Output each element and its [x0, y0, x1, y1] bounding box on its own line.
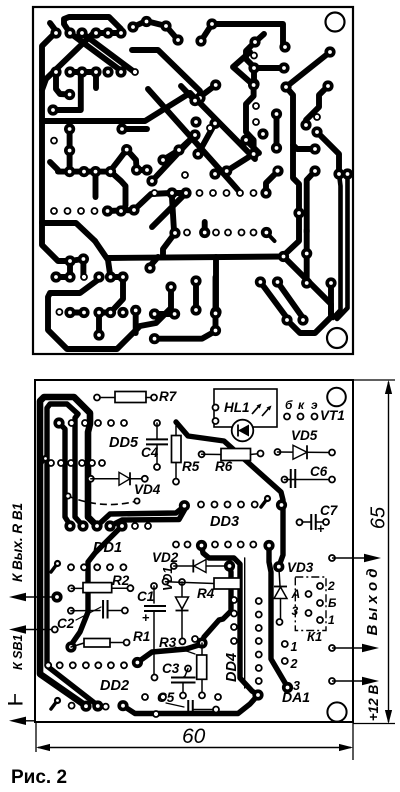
stub pad DD3 — [261, 495, 271, 507]
svg-text:C3: C3 — [162, 661, 180, 676]
pad — [271, 142, 282, 153]
pad near R3 — [192, 636, 198, 642]
pad — [300, 119, 311, 130]
pad VD2 cathode — [224, 560, 235, 571]
pad — [64, 89, 75, 100]
pad VD5 anode — [275, 449, 281, 455]
wire — [233, 52, 250, 82]
arrow +12V — [332, 677, 379, 685]
wire — [190, 93, 255, 159]
wire — [286, 87, 299, 212]
wire — [255, 34, 264, 42]
resistor R3 — [197, 655, 207, 679]
pad — [301, 277, 312, 288]
wire long diagonal to VD3 — [176, 422, 283, 566]
pad R4 left — [163, 579, 169, 585]
hole — [92, 208, 98, 214]
wire — [132, 50, 200, 98]
capacitor C6 — [291, 469, 296, 488]
pad — [248, 148, 259, 159]
pad — [64, 255, 75, 266]
pad R3 top — [196, 637, 207, 648]
pad DD2 row2 — [69, 703, 75, 709]
hole — [213, 230, 219, 236]
wire — [111, 278, 124, 313]
pad DD1 row2 — [120, 564, 126, 570]
wire — [155, 311, 175, 317]
wire — [254, 65, 284, 71]
pad DD2 row1 — [45, 662, 51, 668]
pad DD3 row2 — [212, 542, 218, 548]
pad — [64, 123, 75, 134]
pad — [190, 275, 201, 286]
wire — [67, 129, 73, 172]
pad — [257, 128, 268, 139]
pad — [105, 307, 116, 318]
pad — [261, 227, 272, 238]
pad — [169, 227, 180, 238]
capacitor C2 — [103, 600, 108, 619]
pad — [90, 27, 101, 38]
pad VD1 top — [179, 579, 185, 585]
pad R2 right — [127, 585, 133, 591]
wire C5 left lead — [159, 713, 188, 715]
pad — [146, 175, 157, 186]
wire VD3 top lead — [279, 569, 280, 586]
hole — [251, 230, 257, 236]
pad — [50, 27, 61, 38]
wire VD2 leads — [174, 565, 230, 567]
pad — [278, 251, 289, 262]
pad DD1 row2 — [94, 564, 100, 570]
pad DD3 row1 — [238, 502, 244, 508]
capacitor C4 — [146, 439, 168, 444]
wire R5 bottom lead — [175, 463, 177, 482]
wire C2 right lead — [108, 610, 125, 612]
extension line bottom right — [353, 723, 395, 725]
arrow output top — [332, 554, 381, 562]
wire to DA1 pin3 — [269, 546, 288, 687]
pad C3 top — [185, 666, 191, 672]
svg-text:К SB1: К SB1 — [11, 634, 25, 670]
wire R4 left lead — [166, 582, 215, 584]
pad DD3 row2 — [173, 542, 179, 548]
pad VD3 top — [273, 561, 284, 572]
hole — [197, 190, 203, 196]
stub pad — [51, 560, 61, 572]
wire — [50, 162, 58, 170]
pad — [130, 305, 141, 316]
mounting hole bottom-right — [327, 328, 347, 348]
pad — [322, 80, 333, 91]
wire — [307, 171, 315, 232]
pad DA1 col — [256, 665, 262, 671]
resistor R2 — [83, 583, 112, 593]
pad — [64, 166, 75, 177]
pad — [194, 92, 205, 103]
hole — [56, 309, 62, 315]
svg-text:60: 60 — [182, 725, 206, 748]
pad DD1 — [77, 520, 88, 531]
pad — [173, 144, 184, 155]
wire P2 — [71, 526, 122, 645]
capacitor C5 — [188, 700, 193, 716]
pad DD4 col — [231, 597, 237, 603]
wire — [284, 257, 332, 315]
pad — [78, 253, 89, 264]
pad — [210, 79, 221, 90]
pad — [115, 27, 126, 38]
pad DA1 — [252, 689, 263, 700]
pad DA1 pin3 — [282, 682, 293, 693]
pad — [157, 154, 168, 165]
wire C6 leads — [285, 479, 333, 481]
wire R3 top lead — [201, 643, 203, 655]
dimension 65 bottom arrowhead — [385, 710, 392, 724]
svg-text:C4: C4 — [141, 445, 159, 460]
pad DD5 row1 — [69, 420, 75, 426]
svg-text:Б: Б — [328, 596, 337, 610]
pad — [293, 207, 304, 218]
pad — [50, 271, 61, 282]
wire — [148, 89, 238, 190]
wire — [95, 241, 110, 274]
wire — [48, 279, 171, 349]
hole — [132, 69, 138, 75]
wire — [111, 172, 126, 210]
pad R1 left — [65, 641, 76, 652]
hole — [210, 190, 216, 196]
svg-text:к: к — [298, 398, 305, 412]
pad — [271, 108, 282, 119]
svg-text:+: + — [142, 610, 150, 625]
wire — [163, 137, 193, 160]
wire P1b — [110, 510, 184, 526]
pad VD1 bottom — [179, 638, 185, 644]
pad DD5 row2 — [58, 460, 64, 466]
diode VD3 — [274, 587, 287, 599]
pad — [272, 276, 283, 287]
capacitor C1 — [144, 606, 166, 611]
pad DD2 row1 — [108, 662, 114, 668]
pad DD2 row1 — [121, 662, 127, 668]
wire VD3 lead — [280, 599, 282, 623]
hole — [253, 119, 259, 125]
pad — [180, 187, 191, 198]
wire C4 bottom lead — [156, 445, 158, 468]
resistor R7 — [115, 392, 146, 403]
pad C7 right — [323, 519, 329, 525]
svg-text:э: э — [311, 398, 318, 412]
pad C5 right — [213, 707, 219, 713]
pad — [127, 21, 138, 32]
wire — [201, 24, 212, 41]
wire — [70, 259, 83, 261]
pad — [116, 123, 127, 134]
pad DA1 col — [256, 625, 262, 631]
hole — [152, 190, 158, 196]
svg-text:К1: К1 — [307, 629, 322, 644]
pad — [115, 205, 126, 216]
pad DD4 col — [231, 638, 237, 644]
wire — [333, 174, 341, 318]
diode VD2 — [193, 560, 206, 573]
dimension 65 line — [388, 382, 390, 722]
svg-text:R7: R7 — [159, 389, 178, 404]
pad — [78, 307, 89, 318]
pad DD5 row1 — [108, 420, 114, 426]
ground symbol — [8, 694, 23, 704]
pad — [117, 271, 128, 282]
wire — [266, 171, 278, 193]
pad DD3 row1 — [198, 502, 204, 508]
LED HL1 arrows — [252, 404, 272, 417]
wire R6 left lead — [202, 453, 221, 455]
wire P1 — [97, 507, 184, 527]
wire — [202, 222, 208, 233]
svg-text:R5: R5 — [182, 459, 200, 474]
wire — [111, 150, 127, 170]
wire long horizontal — [108, 257, 284, 259]
pad DD2 row1 — [83, 662, 89, 668]
wire VD4 leads — [91, 478, 145, 480]
wire — [152, 135, 195, 181]
pad DD2 row1 — [57, 662, 63, 668]
pad — [76, 66, 87, 77]
wire — [337, 174, 348, 319]
hole — [251, 53, 257, 59]
wire DD2 pad to R3 — [137, 644, 202, 663]
wire — [278, 282, 304, 318]
pad — [209, 168, 220, 179]
pad DD3 row2 — [250, 542, 256, 548]
pad VD4 anode — [88, 476, 94, 482]
wire C5 pointer — [166, 703, 184, 707]
wire — [266, 233, 274, 242]
pad — [249, 36, 260, 47]
pad DD3 pin8 — [196, 540, 207, 551]
wire R2 right lead — [112, 587, 131, 589]
pad — [64, 271, 75, 282]
wire — [213, 257, 219, 311]
pad DD5 pin1 — [53, 417, 64, 428]
pad DD1 — [104, 520, 115, 531]
svg-text:65: 65 — [368, 506, 390, 529]
pad DD2 — [132, 657, 143, 668]
wire — [82, 33, 133, 71]
pad — [192, 148, 203, 159]
svg-text:VT1: VT1 — [320, 408, 345, 423]
pad — [189, 129, 200, 140]
pad — [297, 314, 308, 325]
pad C2 right — [122, 608, 128, 614]
wire — [70, 69, 96, 75]
wire — [96, 30, 121, 36]
pad DD3 row1 — [225, 502, 231, 508]
wire R7 right lead — [146, 397, 154, 399]
pad DD1 row1 — [132, 523, 138, 529]
pad C7 left — [297, 519, 303, 525]
wire — [93, 172, 99, 197]
pad ground bus — [117, 700, 128, 711]
diode VD4 — [119, 472, 130, 485]
wire — [70, 33, 120, 70]
wire C2 pointer — [76, 607, 101, 620]
pad R7 left — [94, 395, 100, 401]
svg-text:+: + — [317, 521, 325, 536]
svg-text:R1: R1 — [133, 629, 150, 644]
hole jumper left — [65, 493, 70, 498]
resistor R6 — [221, 449, 251, 461]
pad DD3 row2 — [185, 542, 191, 548]
wire R1 left lead — [71, 643, 84, 647]
wire — [133, 310, 139, 333]
pad to SB1 — [52, 627, 58, 633]
wire R5 top lead — [175, 426, 177, 436]
pad — [240, 134, 251, 145]
pad — [189, 95, 200, 106]
wire — [108, 193, 187, 211]
pad C4 top — [154, 420, 160, 426]
wire — [317, 132, 339, 173]
pad — [93, 329, 104, 340]
pad DD2 row2 — [103, 704, 109, 710]
pad DD1 — [64, 520, 75, 531]
svg-text:C6: C6 — [310, 464, 328, 479]
pad R1 right — [124, 640, 130, 646]
pad K1 — [317, 600, 323, 606]
pad C4 bottom — [154, 464, 160, 470]
svg-text:1: 1 — [291, 640, 298, 654]
dimension 65 top arrowhead — [385, 380, 392, 394]
resistor R5 — [172, 436, 182, 463]
pad C6 right — [329, 477, 335, 483]
pad — [333, 168, 344, 179]
svg-text:2: 2 — [290, 657, 298, 671]
pad DA1 col — [256, 638, 262, 644]
pad — [169, 308, 180, 319]
svg-text:VD3: VD3 — [287, 560, 314, 575]
mounting hole bottom-right — [327, 702, 346, 721]
pad — [160, 20, 171, 31]
wire — [99, 310, 111, 316]
relay K1 dashed outline — [295, 577, 326, 631]
wire R3 bottom lead — [201, 679, 203, 695]
svg-text:C7: C7 — [320, 503, 339, 518]
wire — [42, 32, 56, 222]
pad DD1 row1 — [145, 523, 151, 529]
wire — [293, 145, 315, 149]
wire C3 top lead — [183, 669, 188, 678]
svg-text:+12 В: +12 В — [366, 685, 381, 722]
pad VD5 cathode — [329, 450, 335, 456]
wire C1 top lead — [153, 586, 155, 603]
pad +12V — [329, 678, 335, 684]
arrow to K SB1 — [9, 625, 51, 633]
svg-text:2: 2 — [327, 579, 335, 593]
wire — [155, 331, 216, 339]
svg-text:Рис. 2: Рис. 2 — [11, 767, 67, 788]
pad — [324, 46, 335, 57]
wire — [274, 114, 280, 148]
wire — [67, 261, 73, 277]
pad — [248, 79, 259, 90]
pad — [206, 18, 217, 29]
wire C7 left lead — [302, 521, 311, 523]
hole — [65, 208, 71, 214]
svg-text:DD5: DD5 — [109, 435, 139, 451]
pad — [78, 166, 89, 177]
wire ground inner rail — [47, 404, 98, 706]
wire — [56, 72, 70, 95]
wire — [58, 169, 111, 175]
wire — [152, 193, 186, 227]
pad DD5 row2 — [79, 460, 85, 466]
wire ground outer rail — [40, 397, 97, 706]
capacitor C3 — [171, 678, 196, 683]
pad — [281, 314, 292, 325]
wire — [227, 85, 254, 171]
LED HL1 circle — [232, 420, 254, 442]
hole — [275, 168, 281, 174]
pad VD4 cathode — [142, 476, 148, 482]
pad — [166, 187, 177, 198]
svg-text:R2: R2 — [112, 573, 130, 588]
pad — [64, 66, 75, 77]
pad DD3 row2 — [238, 542, 244, 548]
arrow ground — [9, 717, 36, 725]
pad DD4 col — [231, 624, 237, 630]
pad DD5 row1 — [121, 420, 127, 426]
pad C6 left — [282, 477, 288, 483]
pad — [141, 16, 152, 27]
wire C1 bottom lead — [153, 611, 155, 676]
pad — [47, 104, 58, 115]
pad C2 left — [68, 608, 74, 614]
hole — [237, 190, 243, 196]
pad — [311, 126, 322, 137]
wire — [246, 42, 255, 67]
wire — [212, 24, 283, 45]
hole — [78, 208, 84, 214]
pad — [149, 308, 160, 319]
pad — [121, 144, 132, 155]
pad DD5 row2 — [48, 460, 54, 466]
wire — [70, 310, 84, 316]
wire — [42, 93, 190, 121]
hole — [253, 103, 259, 109]
wire R3 pointer — [175, 647, 195, 654]
pad — [64, 27, 75, 38]
pad — [115, 66, 126, 77]
pad DD3 right — [276, 499, 287, 510]
pad — [248, 62, 259, 73]
pad HL1 bottom — [213, 418, 219, 424]
pad DA1 col — [256, 652, 262, 658]
pad DA1 col — [256, 678, 262, 684]
wire — [133, 21, 178, 40]
svg-text:К Вых. R В1: К Вых. R В1 — [10, 503, 25, 582]
svg-text:DD3: DD3 — [210, 514, 239, 530]
pad K1 — [317, 617, 323, 623]
pad — [141, 164, 152, 175]
wire VD2 to R3 — [202, 566, 231, 643]
pad — [342, 168, 353, 179]
dimension 60 left arrowhead — [36, 744, 50, 751]
wire — [64, 17, 121, 33]
pad — [260, 187, 271, 198]
wire R6 right lead — [251, 454, 261, 455]
